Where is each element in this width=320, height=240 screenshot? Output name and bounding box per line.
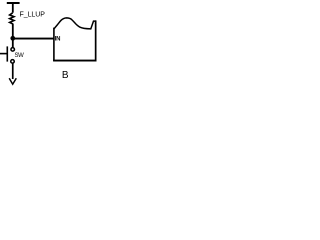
svg-text:B: B [62, 70, 69, 81]
block B right edge [95, 20, 97, 61]
wire junction to switch top contact [12, 40, 14, 48]
wire bottom contact to ground [12, 63, 14, 79]
wire resistor to junction [12, 24, 14, 38]
block B left edge [53, 28, 55, 61]
ground arrow symbol [9, 78, 16, 84]
svg-text:F_LLUP: F_LLUP [20, 11, 46, 18]
svg-text:IN: IN [55, 36, 61, 42]
resistor R pullup [10, 13, 14, 24]
switch actuator stem [0, 53, 7, 55]
block B bottom edge [53, 60, 96, 62]
power rail T symbol [7, 2, 20, 13]
junction node [10, 36, 15, 41]
wire junction to block input [13, 38, 54, 40]
svg-text:SW: SW [15, 53, 25, 59]
block B wavy top edge [54, 18, 96, 29]
switch lever bar [7, 46, 9, 61]
switch SW bottom contact [11, 60, 15, 64]
switch SW top contact [11, 48, 15, 52]
